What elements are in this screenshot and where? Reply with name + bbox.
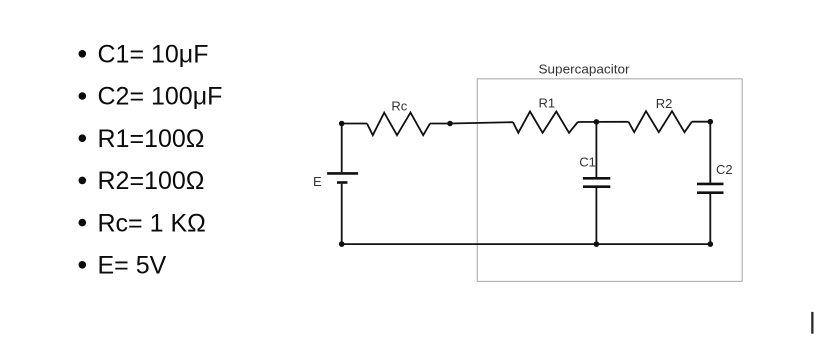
value label R2 bullet — [79, 177, 87, 185]
node D battery bottom — [339, 241, 345, 247]
node E2 C1 bottom — [594, 241, 600, 247]
wire node C down to C2 — [709, 122, 711, 183]
node F C2 bottom — [708, 241, 714, 247]
resistor R2 — [629, 111, 692, 132]
svg-text:C1= 10μF: C1= 10μF — [98, 41, 209, 69]
svg-text:E= 5V: E= 5V — [98, 252, 167, 280]
value label R1 bullet — [79, 134, 87, 142]
svg-text:R1=100Ω: R1=100Ω — [98, 125, 205, 153]
svg-text:C2: C2 — [716, 162, 733, 177]
wire node A to R1 — [450, 122, 513, 123]
svg-text:R2=100Ω: R2=100Ω — [98, 167, 205, 195]
node A — [447, 121, 453, 127]
wire node B to R2 — [596, 121, 628, 123]
svg-text:C2= 100μF: C2= 100μF — [98, 83, 223, 111]
svg-text:Supercapacitor: Supercapacitor — [539, 62, 631, 77]
wire R1 to node B — [578, 121, 597, 123]
value label Rc bullet — [79, 219, 87, 227]
value label C1 bullet — [79, 50, 87, 58]
node battery top — [339, 121, 345, 127]
supercapacitor box — [477, 79, 742, 282]
capacitor C2 — [697, 184, 724, 193]
wire battery top to Rc — [342, 123, 367, 125]
wire node B down to C1 — [595, 122, 597, 177]
svg-text:E: E — [313, 174, 322, 189]
value label E bullet — [79, 261, 87, 269]
svg-text:Rc= 1 KΩ: Rc= 1 KΩ — [98, 209, 206, 237]
wire R2 to node C — [692, 121, 711, 123]
battery E — [327, 124, 358, 245]
svg-text:R1: R1 — [539, 96, 556, 111]
node B — [594, 119, 600, 125]
svg-text:C1: C1 — [579, 155, 596, 170]
wire C2 down to bottom rail — [709, 194, 711, 244]
capacitor C1 — [583, 178, 610, 186]
resistor Rc — [367, 113, 430, 136]
svg-text:Rc: Rc — [391, 98, 407, 113]
wire C1 down to bottom rail — [595, 188, 597, 244]
node C — [708, 119, 714, 125]
resistor R1 — [513, 112, 578, 133]
text cursor — [811, 312, 813, 334]
value label C2 bullet — [79, 92, 87, 100]
wire bottom rail — [342, 243, 711, 245]
svg-text:R2: R2 — [656, 96, 673, 111]
wire Rc to node A — [430, 123, 450, 125]
